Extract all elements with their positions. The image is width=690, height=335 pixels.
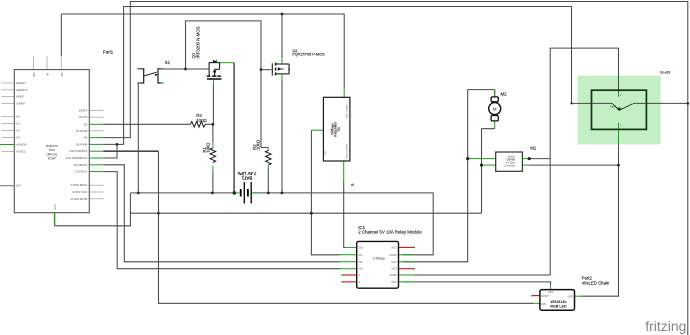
- wire green regulator output: [343, 161, 345, 181]
- svg-text:S1: S1: [165, 60, 171, 65]
- svg-text:ICSP: ICSP: [48, 157, 57, 161]
- svg-text:D2: D2: [84, 122, 88, 126]
- wire green tilt switch bottom stub: [618, 123, 620, 145]
- M1 converter box: [496, 152, 523, 171]
- svg-text:Part4: Part4: [610, 104, 617, 108]
- selection highlight for hc-sr3 part: [578, 76, 661, 145]
- wire Q2 gate stub: [261, 69, 271, 71]
- wire net D5/D11: pin wires to top rail to tilt-switch common: [104, 7, 613, 145]
- arduino texts: [46, 144, 58, 161]
- wire relay COM2 to tilt switch top: [403, 48, 619, 275]
- svg-text:5V: 5V: [47, 72, 50, 75]
- svg-text:input voltage: input voltage: [346, 104, 349, 118]
- battery BAT1: [241, 182, 252, 204]
- svg-text:hc-sr3: hc-sr3: [660, 70, 670, 74]
- wire relay NC1 to M2/M1 node: [403, 90, 495, 262]
- wire N/C pin to left edge: [0, 185, 14, 187]
- junction Q2 to plus bus: [281, 192, 284, 195]
- svg-text:A3: A3: [16, 136, 20, 140]
- svg-text:fritzing: fritzing: [645, 318, 686, 334]
- svg-text:VIN: VIN: [60, 72, 64, 76]
- svg-text:Converter: Converter: [504, 164, 516, 168]
- svg-text:FQP27P06 P-MOS: FQP27P06 P-MOS: [292, 53, 325, 57]
- junction M1 out1 bend: [528, 157, 531, 160]
- svg-text:M1: M1: [530, 145, 537, 150]
- green loose-end tips: [341, 247, 533, 297]
- wire red relay left pin5: [343, 274, 357, 276]
- junction M2/NC1/M1 in1: [466, 157, 469, 160]
- wire green relay left stubs: [345, 246, 357, 248]
- switch S1: [137, 68, 163, 193]
- junction M2 bottom/M1 in2/gnd: [480, 164, 483, 167]
- svg-text:RESET: RESET: [16, 81, 26, 85]
- svg-text:IN2: IN2: [359, 267, 364, 271]
- junction D5/D11 join: [116, 143, 119, 146]
- svg-text:IN1: IN1: [359, 260, 364, 264]
- wire Q1 drain to gnd bus: [233, 63, 235, 193]
- svg-text:NC1: NC1: [391, 260, 397, 264]
- wire S1 left bottom to battery minus bus: [137, 83, 139, 193]
- wire green regulator gnd pin: [311, 129, 323, 131]
- green connected pin stubs (arduino): [89, 124, 103, 171]
- svg-text:COM2: COM2: [389, 273, 397, 277]
- svg-text:D5 PWM: D5 PWM: [76, 142, 88, 146]
- junction gnd bus2: [310, 212, 313, 215]
- svg-text:Part1: Part1: [103, 50, 114, 55]
- svg-text:100Ω: 100Ω: [196, 118, 207, 123]
- svg-text:2D: 2D: [287, 68, 291, 71]
- svg-text:GND: GND: [54, 204, 57, 210]
- wire net D10 to WS2812 DIN: [104, 150, 159, 152]
- svg-text:D12/MISO: D12/MISO: [74, 163, 88, 167]
- relay pin labels: [359, 245, 365, 284]
- tilt switch part box (hc-sr3): [592, 90, 647, 129]
- junction right edge: [687, 102, 690, 105]
- junction VIN-Q2: [281, 13, 284, 16]
- wire red relay left pin6: [343, 281, 357, 283]
- svg-text:ICSP2 MOSI: ICSP2 MOSI: [71, 197, 88, 201]
- wire green gnd pin arduino: [54, 213, 56, 226]
- wire D11 riser joining D5: [104, 144, 118, 158]
- junction Q1 drain to minus bus: [233, 191, 237, 195]
- arduino right stubs: [89, 109, 103, 111]
- svg-text:VSS: VSS: [548, 290, 553, 294]
- svg-text:AREF: AREF: [16, 95, 24, 99]
- wire green relay right stubs: [399, 254, 414, 256]
- svg-text:gnd: gnd: [324, 150, 327, 155]
- junction R2 to plus bus: [267, 192, 270, 195]
- svg-text:IRF3205 N-MOS: IRF3205 N-MOS: [196, 26, 201, 58]
- voltage regulator U1 box: [323, 97, 350, 161]
- wire S1 to Q1 gate: [163, 68, 209, 70]
- svg-text:IOREF: IOREF: [16, 101, 25, 105]
- svg-text:D10 PWM/SS: D10 PWM/SS: [69, 149, 87, 153]
- svg-text:VDD: VDD: [567, 295, 573, 299]
- svg-text:RGB LED: RGB LED: [550, 305, 567, 309]
- wire green M1 in1: [468, 158, 496, 160]
- transistor Q1 IRF3205 N-MOS: [207, 60, 222, 84]
- red wires: [343, 247, 540, 295]
- svg-text:NO2: NO2: [391, 280, 397, 284]
- resistor R3 100 ohm: [188, 122, 207, 128]
- svg-text:ICSP2 SCK: ICSP2 SCK: [72, 190, 87, 194]
- wire bus1 right (battery plus) to relay COM1 riser: [252, 193, 433, 255]
- svg-text:10kΩ: 10kΩ: [255, 139, 260, 150]
- M2 dc motor: [489, 97, 501, 121]
- wire Q2 gate to R2 top: [261, 69, 268, 147]
- svg-text:2 Relay: 2 Relay: [372, 256, 385, 260]
- wire gnd bus2: [130, 212, 481, 214]
- svg-text:D11 PWM/MOSI: D11 PWM/MOSI: [66, 156, 87, 160]
- svg-text:WS2812b: WS2812b: [551, 300, 568, 304]
- wire Q2 source vertical bottom: [281, 80, 283, 193]
- wire green M1 in2: [482, 164, 496, 166]
- svg-text:D3 PWM: D3 PWM: [76, 129, 88, 133]
- svg-text:A1: A1: [16, 122, 20, 126]
- junction switch common corner: [570, 102, 572, 104]
- transistor Q2 FQP27P06 P-MOS: [272, 58, 289, 80]
- junction S1 to minus bus: [137, 192, 140, 195]
- wire regulator gnd to relay DC-: [311, 130, 339, 255]
- wire R1 top from R3 junction: [212, 124, 214, 142]
- svg-text:3V3: 3V3: [33, 72, 36, 77]
- svg-text:A4/SDA: A4/SDA: [16, 143, 26, 147]
- junction switch-bottom/M1 out2: [617, 164, 620, 167]
- svg-text:NC2: NC2: [391, 267, 397, 271]
- wire M1 out2 to tilt switch bottom net: [529, 164, 619, 166]
- svg-text:BAT1: BAT1: [241, 175, 252, 180]
- wire green M1 out stubs: [522, 158, 529, 160]
- wire relay NO2 to WS2812 VSS: [403, 282, 551, 285]
- wire tilt-switch common to right edge: [633, 102, 688, 104]
- green wire segments: [0, 56, 619, 303]
- wire green WS2812 VDD stub: [575, 295, 582, 297]
- wire green M2 bottom: [494, 121, 496, 129]
- svg-text:2 Channel 5V 10A Relay Module: 2 Channel 5V 10A Relay Module: [358, 230, 422, 235]
- wire R3 right lead to junction: [206, 123, 213, 125]
- wire red relay NO1: [399, 246, 414, 248]
- wire regulator output to relay DC+: [344, 181, 345, 247]
- junction R1 to minus bus: [211, 192, 214, 195]
- svg-text:RESET2: RESET2: [16, 88, 28, 92]
- wire GND from arduino: [55, 193, 131, 226]
- svg-text:NO1: NO1: [391, 245, 397, 249]
- light gray unconnected pin stubs: [2, 56, 104, 199]
- wire bus1 left (battery minus): [131, 192, 236, 194]
- svg-text:DOUT: DOUT: [542, 294, 550, 298]
- wire green VIN stub: [60, 56, 62, 69]
- arduino U part body: [14, 70, 89, 213]
- wire net D10 vertical and DIN run: [159, 151, 534, 303]
- svg-text:M: M: [493, 106, 497, 111]
- svg-text:DC-: DC-: [359, 253, 364, 257]
- svg-text:D1/TX: D1/TX: [79, 115, 87, 119]
- wire green tilt switch top stub: [618, 93, 620, 97]
- svg-text:10kΩ: 10kΩ: [205, 142, 210, 153]
- svg-text:A0: A0: [16, 115, 20, 119]
- wire Q2 drain vertical top: [281, 14, 283, 58]
- svg-text:N/C: N/C: [16, 184, 21, 188]
- wire green WS2812 VSS drop: [550, 285, 552, 290]
- resistor R2 10k: [266, 148, 272, 170]
- wire A4/SDA green to left edge: [0, 144, 14, 146]
- svg-text:D13/SCK: D13/SCK: [75, 170, 87, 174]
- svg-text:A5/SCL: A5/SCL: [16, 150, 26, 154]
- wire green battery minus tick: [236, 192, 240, 194]
- wire gnd bus2 riser to M1 node: [481, 165, 483, 213]
- wire green Q1 drain tick: [220, 62, 235, 64]
- wire R1 bottom to gnd bus: [212, 171, 214, 193]
- wire D2 to R3: [104, 123, 191, 125]
- svg-text:D4: D4: [84, 136, 88, 140]
- wire net D13 to relay IN2: [104, 172, 340, 269]
- relay module IC1 box: [357, 241, 399, 288]
- svg-text:D0/RX: D0/RX: [79, 108, 88, 112]
- svg-text:ICSP2 MISO: ICSP2 MISO: [71, 183, 88, 187]
- svg-text:DC+: DC+: [359, 245, 365, 249]
- wire green regulator input: [343, 89, 345, 98]
- arduino left stubs: [2, 82, 15, 84]
- resistor R1 10k: [210, 143, 216, 172]
- wire gate loop S1 to Q2 gate: [186, 21, 262, 70]
- svg-text:COM1: COM1: [389, 253, 397, 257]
- wire Q1 source down to junction: [212, 84, 214, 124]
- wire tilt switch bottom to WS2812 VDD: [581, 144, 618, 296]
- wire green M2 top: [494, 90, 496, 97]
- wire red WS2812 DOUT: [533, 295, 540, 297]
- junction D10 at gnd bus2: [157, 212, 160, 215]
- wire green battery plus tick: [252, 192, 259, 194]
- WS2812b RGB LED box: [540, 290, 575, 311]
- svg-text:7.4V LiPo: 7.4V LiPo: [237, 171, 256, 176]
- svg-text:40xLED Chain: 40xLED Chain: [582, 280, 610, 285]
- wire net VIN: arduino VIN to Q2 top and regulator input: [61, 14, 344, 89]
- junction R3-R1-Q1: [212, 123, 215, 126]
- arduino top stubs 3V3 5V: [33, 56, 35, 69]
- svg-text:M2: M2: [501, 91, 508, 96]
- wire green WS2812 DIN stub: [533, 302, 540, 304]
- svg-text:output voltage: output voltage: [346, 143, 349, 159]
- wire net D12 to relay IN1: [104, 165, 340, 262]
- svg-text:A2: A2: [16, 129, 20, 133]
- wire VIN vertical at arduino: [60, 14, 62, 56]
- junction gate loop right / R2 tap: [260, 68, 263, 71]
- wire R2 bottom to battery plus bus: [267, 169, 269, 193]
- wire M1 out1 to COM2 riser: [529, 158, 550, 160]
- wire red relay NC2: [399, 268, 414, 270]
- svg-text:DIN: DIN: [542, 302, 547, 306]
- wire M2 bottom to M1 IN2 node: [482, 129, 495, 165]
- junction gate loop left: [184, 68, 187, 71]
